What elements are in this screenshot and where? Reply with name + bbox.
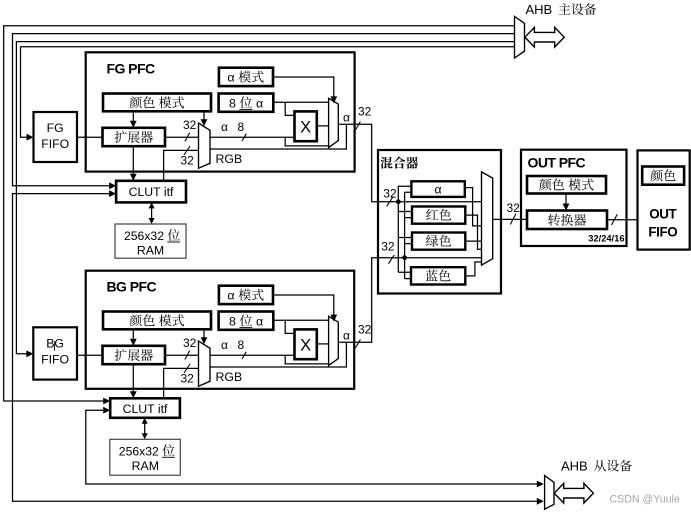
- svg-text:X: X: [300, 337, 311, 355]
- svg-text:32: 32: [358, 105, 372, 119]
- wire FG 8bit alpha to alpha mux: [273, 101, 328, 103]
- watermark: [610, 494, 680, 506]
- label BG alpha out: [343, 329, 350, 343]
- box FG CLUT itf: [116, 181, 186, 203]
- svg-text:OUT PFC: OUT PFC: [528, 154, 586, 170]
- svg-text:CLUT itf: CLUT itf: [123, 402, 168, 416]
- node BG blender junction: [402, 255, 407, 260]
- svg-text:256x32: 256x32: [119, 444, 159, 458]
- box FG color mode register: [103, 94, 211, 112]
- svg-text:32: 32: [358, 323, 372, 337]
- node AHB slave label: [561, 459, 632, 474]
- wire BG 8bit alpha to alpha mux: [273, 319, 328, 321]
- box OUT color mode register: [527, 176, 606, 194]
- box FG expander: [103, 128, 166, 146]
- slash BG output bus: [355, 340, 360, 349]
- node FG blender junction: [396, 199, 401, 204]
- wire blender FG vertical tap: [397, 186, 399, 272]
- slash BG bus lower: [184, 364, 190, 373]
- label blender FG 32: [383, 187, 397, 201]
- svg-text:32: 32: [183, 336, 197, 350]
- label FG RGB bus: [216, 152, 243, 166]
- wire D loop to FG FIFO: [21, 47, 515, 141]
- box FG alpha mode register: [219, 68, 273, 86]
- box BG expander: [103, 346, 166, 364]
- svg-text:32: 32: [181, 372, 195, 386]
- slash BG alpha bus: [242, 352, 246, 359]
- label FG PFC title: [107, 60, 155, 76]
- AHB master bidirectional bus arrow: [525, 27, 564, 47]
- slash FG bus lower: [184, 146, 190, 155]
- mux blender result mux: [482, 172, 493, 265]
- label BG RGB bus: [216, 370, 243, 384]
- block OUT PFC box: [521, 150, 627, 246]
- svg-text:8: 8: [229, 314, 236, 328]
- wire FG 8bit alpha branch to X: [285, 102, 294, 115]
- box BG CLUT itf: [110, 398, 180, 418]
- svg-text:RGB: RGB: [216, 152, 243, 166]
- wire converter to OUT FIFO: [607, 219, 638, 221]
- label FG output 32: [358, 105, 372, 119]
- svg-text:CLUT itf: CLUT itf: [129, 185, 174, 199]
- mux FG color mux: [199, 123, 211, 168]
- label blender out 32: [507, 201, 521, 215]
- wire blender blue out: [465, 262, 481, 276]
- wire BG alpha mode to alpha mux select: [273, 295, 337, 322]
- wire BG color mux alpha out to X: [210, 354, 295, 356]
- slash FG alpha bus: [242, 134, 246, 141]
- svg-text:RAM: RAM: [137, 244, 164, 258]
- mux FG alpha mux: [329, 98, 339, 147]
- wire BG original alpha branch to alpha mux: [285, 355, 328, 364]
- svg-text:8: 8: [238, 120, 245, 134]
- svg-text:32: 32: [183, 118, 197, 132]
- label OUT bus widths: [588, 234, 624, 244]
- svg-text:FIFO: FIFO: [648, 224, 677, 239]
- block blender box: [378, 150, 501, 294]
- arrow BG color mode to expander: [130, 329, 137, 346]
- wire blender BG vertical tap: [404, 192, 406, 278]
- wire blender red out: [465, 215, 481, 249]
- arrow OUT color mode to converter: [563, 194, 570, 211]
- svg-text:RGB: RGB: [216, 370, 243, 384]
- block FG PFC box: [86, 52, 355, 171]
- label blender BG 32: [381, 240, 395, 254]
- svg-text:OUT: OUT: [649, 207, 677, 222]
- svg-text:α: α: [227, 289, 234, 303]
- svg-text:FIFO: FIFO: [41, 353, 69, 367]
- svg-text:BG: BG: [46, 337, 64, 351]
- box FG CLUT RAM: [115, 224, 186, 258]
- svg-text:32: 32: [381, 240, 395, 254]
- slash blender FG bus: [387, 197, 394, 207]
- box BG CLUT RAM: [110, 439, 181, 475]
- arrow BG expander to CLUT itf: [130, 364, 137, 398]
- arrow FG CLUT RAM bidirectional: [149, 202, 155, 224]
- label OUT PFC title: [528, 154, 586, 170]
- wire FG alpha mode to alpha mux select: [273, 77, 337, 103]
- label FG alpha out: [343, 111, 350, 125]
- label BG PFC title: [107, 278, 157, 294]
- svg-text:α: α: [256, 314, 263, 328]
- node AHB master label: [526, 2, 597, 17]
- wire BG 8bit alpha branch to X: [285, 320, 294, 333]
- svg-text:32: 32: [383, 187, 397, 201]
- slash BG bus upper: [185, 351, 190, 360]
- box BG alpha mode register: [219, 286, 273, 304]
- svg-text:FIFO: FIFO: [41, 137, 69, 151]
- AHB slave bidirectional bus arrow: [554, 483, 593, 503]
- mux BG alpha mux: [329, 316, 339, 365]
- wire BG FIFO to expander: [77, 354, 103, 356]
- wire FG 32bit output to blender: [338, 124, 481, 202]
- arrow FG color mode to color mux select: [201, 111, 208, 126]
- block OUT FIFO box: [638, 150, 690, 249]
- svg-text:X: X: [300, 119, 311, 137]
- box BG color mode register: [103, 312, 211, 330]
- wire B loop to FG CLUT input 1: [13, 34, 515, 190]
- svg-text:32/24/16: 32/24/16: [588, 234, 624, 244]
- svg-text:BG PFC: BG PFC: [107, 278, 157, 294]
- wire blender green out: [465, 240, 481, 242]
- wire A outer loop to BG CLUT: [4, 26, 515, 405]
- svg-text:α: α: [343, 111, 350, 125]
- wire FG color mux alpha out to X: [210, 136, 295, 138]
- svg-text:8: 8: [238, 338, 245, 352]
- block BG FIFO: [33, 327, 77, 379]
- svg-text:FG: FG: [47, 121, 64, 135]
- svg-text:RAM: RAM: [132, 459, 159, 473]
- wire BG expander to color mux: [165, 354, 199, 356]
- label BG input bus 32 lower: [181, 372, 195, 386]
- label FG input bus 32 lower: [181, 154, 195, 168]
- arrow FG expander to CLUT itf: [130, 146, 137, 181]
- svg-text:AHB: AHB: [526, 2, 553, 17]
- arrow FG color mode to expander: [130, 111, 137, 128]
- mux BG color mux: [199, 341, 211, 386]
- slash blender BG bus: [388, 255, 394, 264]
- label OUT FIFO title: [648, 207, 677, 240]
- wire blender to OUT PFC: [493, 218, 527, 220]
- svg-text:α: α: [343, 329, 350, 343]
- box FG 8bit alpha register: [219, 94, 274, 112]
- slash FG output bus: [355, 122, 360, 131]
- wire FG X output to alpha mux: [317, 125, 329, 127]
- wire FG original alpha branch to alpha mux: [285, 137, 328, 146]
- slash converter out: [612, 214, 618, 225]
- wire blender FG stubs: [398, 186, 413, 272]
- label FG input bus 32 upper: [183, 118, 197, 132]
- box FG multiplier X: [295, 111, 317, 141]
- wire FG FIFO to expander: [77, 136, 103, 138]
- block BG PFC box: [86, 271, 355, 389]
- label BG alpha 8 bus: [221, 338, 245, 352]
- svg-text:α: α: [434, 182, 441, 196]
- box blender red: [412, 207, 465, 224]
- slash blender out bus: [510, 214, 516, 225]
- label blender title: [380, 157, 418, 169]
- wire BG X output to alpha mux: [317, 343, 329, 345]
- box blender green: [412, 233, 465, 250]
- label BG output 32: [358, 323, 372, 337]
- wire BG CLUT input 2 to AHB slave: [86, 407, 544, 488]
- wire blender alpha out: [465, 188, 482, 226]
- svg-text:8: 8: [229, 96, 236, 110]
- wire FG RGB to output bus: [210, 124, 346, 149]
- wire BG CLUT to color mux: [164, 368, 199, 398]
- wire FG expander to color mux: [165, 136, 199, 138]
- box BG multiplier X: [295, 329, 317, 359]
- wire C loop to BG FIFO: [16, 42, 514, 358]
- svg-text:α: α: [256, 96, 263, 110]
- box BG 8bit alpha register: [219, 312, 274, 330]
- svg-text:AHB: AHB: [561, 459, 588, 474]
- box OUT color register: [642, 167, 684, 185]
- svg-text:32: 32: [507, 201, 521, 215]
- svg-text:α: α: [227, 71, 234, 85]
- label BG input bus 32 upper: [183, 336, 197, 350]
- wire BG 32bit output to blender: [338, 258, 481, 343]
- slash FG bus upper: [185, 133, 190, 142]
- mux AHB master port: [515, 16, 525, 58]
- mux AHB slave port: [545, 476, 554, 510]
- wire blender BG stubs: [405, 192, 413, 278]
- block FG FIFO: [34, 112, 78, 162]
- box blender blue: [411, 267, 465, 284]
- wire FG CLUT input 2 to AHB slave: [13, 190, 544, 505]
- svg-text:32: 32: [181, 154, 195, 168]
- svg-text:FG PFC: FG PFC: [107, 60, 155, 76]
- svg-text:CSDN @Yuule: CSDN @Yuule: [610, 494, 680, 506]
- svg-text:α: α: [221, 338, 228, 352]
- svg-text:256x32: 256x32: [124, 229, 164, 243]
- svg-text:α: α: [221, 120, 228, 134]
- wire BG RGB to output bus: [210, 342, 346, 367]
- label FG alpha 8 bus: [221, 120, 245, 134]
- box OUT converter: [527, 211, 607, 230]
- arrow BG CLUT RAM bidirectional: [142, 418, 148, 440]
- box blender alpha: [411, 181, 464, 197]
- wire FG CLUT to color mux: [164, 150, 199, 180]
- arrow BG color mode to color mux select: [201, 329, 208, 344]
